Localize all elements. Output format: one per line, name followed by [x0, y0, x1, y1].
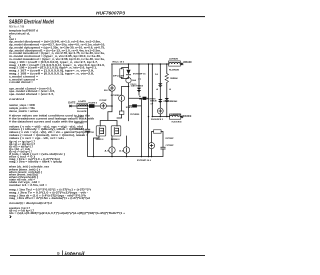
svg-text:EVTEMP 16: EVTEMP 16: [133, 74, 146, 76]
svg-text:control: control: [9, 97, 24, 101]
svg-text:EVTEMP 20 6: EVTEMP 20 6: [137, 160, 152, 162]
svg-text:mag_i 2tra = idbody + idbrk +: mag_i 2tra = idbody + idbrk + iplcap: [9, 160, 63, 164]
svg-text:electrical d,: electrical d,: [9, 32, 30, 36]
svg-text:RBREAK: RBREAK: [170, 77, 178, 80]
svg-text:LDRAIN: LDRAIN: [169, 57, 178, 60]
svg-text:RLSOURCE: RLSOURCE: [172, 122, 182, 124]
svg-text:}: }: [9, 215, 12, 219]
svg-text:LGATE: LGATE: [78, 100, 87, 103]
svg-text:mag_i 4tra dTscl = rb*(0.5m +: mag_i 4tra dTscl = rb*(0.5m + dadsba)*(1…: [9, 196, 91, 200]
svg-text:RLGATE: RLGATE: [77, 110, 87, 113]
svg-text:RVTEMP: RVTEMP: [166, 138, 175, 140]
svg-text:DRAIN: DRAIN: [184, 61, 192, 64]
svg-text:RLDRAIN: RLDRAIN: [169, 68, 179, 71]
svg-text:number tc1 = 2.5m, tc2 =: number tc1 = 2.5m, tc2 =: [9, 183, 48, 187]
svg-text:RSOURCE 3: RSOURCE 3: [151, 119, 164, 121]
svg-text:d.model(t) = dbodymod(trs1*(t-: d.model(t) = dbodymod(trs1*(t-2: [9, 201, 53, 205]
svg-text:intersil: intersil: [65, 251, 86, 256]
svg-text:GA: GA: [132, 79, 137, 82]
svg-text:ids = (v(d,s)/1.0E6)*(p(2.0,b,: ids = (v(d,s)/1.0E6)*(p(2.0,b,0,T)*(sd(a…: [9, 211, 126, 215]
svg-text:CVTEMP: CVTEMP: [166, 145, 175, 147]
svg-text:CB 0.65n: CB 0.65n: [75, 123, 84, 125]
svg-text:CIN 13: CIN 13: [130, 84, 137, 86]
svg-text:ESLC 18: ESLC 18: [104, 90, 112, 92]
svg-text:DPLCAP: DPLCAP: [113, 75, 125, 78]
svg-text:CIN 1.3n: CIN 1.3n: [75, 129, 84, 131]
svg-text:GATE: GATE: [68, 101, 76, 104]
svg-text:dense_matrix = active: dense_matrix = active: [9, 109, 39, 113]
svg-text:REV No. A, 7/98: REV No. A, 7/98: [9, 25, 25, 28]
svg-text:LSOURCE: LSOURCE: [172, 114, 181, 116]
svg-text:DBREAK: DBREAK: [170, 100, 177, 103]
svg-text:S1A 8: S1A 8: [126, 106, 133, 109]
svg-text:HUF76007P3: HUF76007P3: [96, 11, 125, 16]
svg-text:MWEAK 8: MWEAK 8: [111, 138, 120, 141]
svg-text:CA 0.95n: CA 0.95n: [75, 116, 84, 119]
svg-text:EVTHRES 1: EVTHRES 1: [111, 95, 122, 97]
svg-text:MMED 8: MMED 8: [96, 139, 104, 141]
svg-text:values { v verr = vgs - vth, v: values { v verr = vgs - vth, vcl = vds -: [9, 136, 66, 140]
svg-text:EVTEMP: EVTEMP: [100, 100, 108, 102]
svg-text:spe..model s2amod = (von=1.5,: spe..model s2amod = (von=1.5,: [9, 92, 54, 96]
svg-text:EBREAK: EBREAK: [150, 100, 157, 103]
svg-text:RSLC 18 5: RSLC 18 5: [113, 62, 125, 64]
svg-text:RGATE 6: RGATE 6: [89, 101, 98, 104]
svg-text:RVTHRES: RVTHRES: [130, 114, 140, 116]
svg-text:c.model cbmod =: c.model cbmod =: [9, 80, 34, 84]
svg-text:MSTRO: MSTRO: [87, 132, 94, 134]
svg-text:SOURCE: SOURCE: [183, 115, 192, 118]
